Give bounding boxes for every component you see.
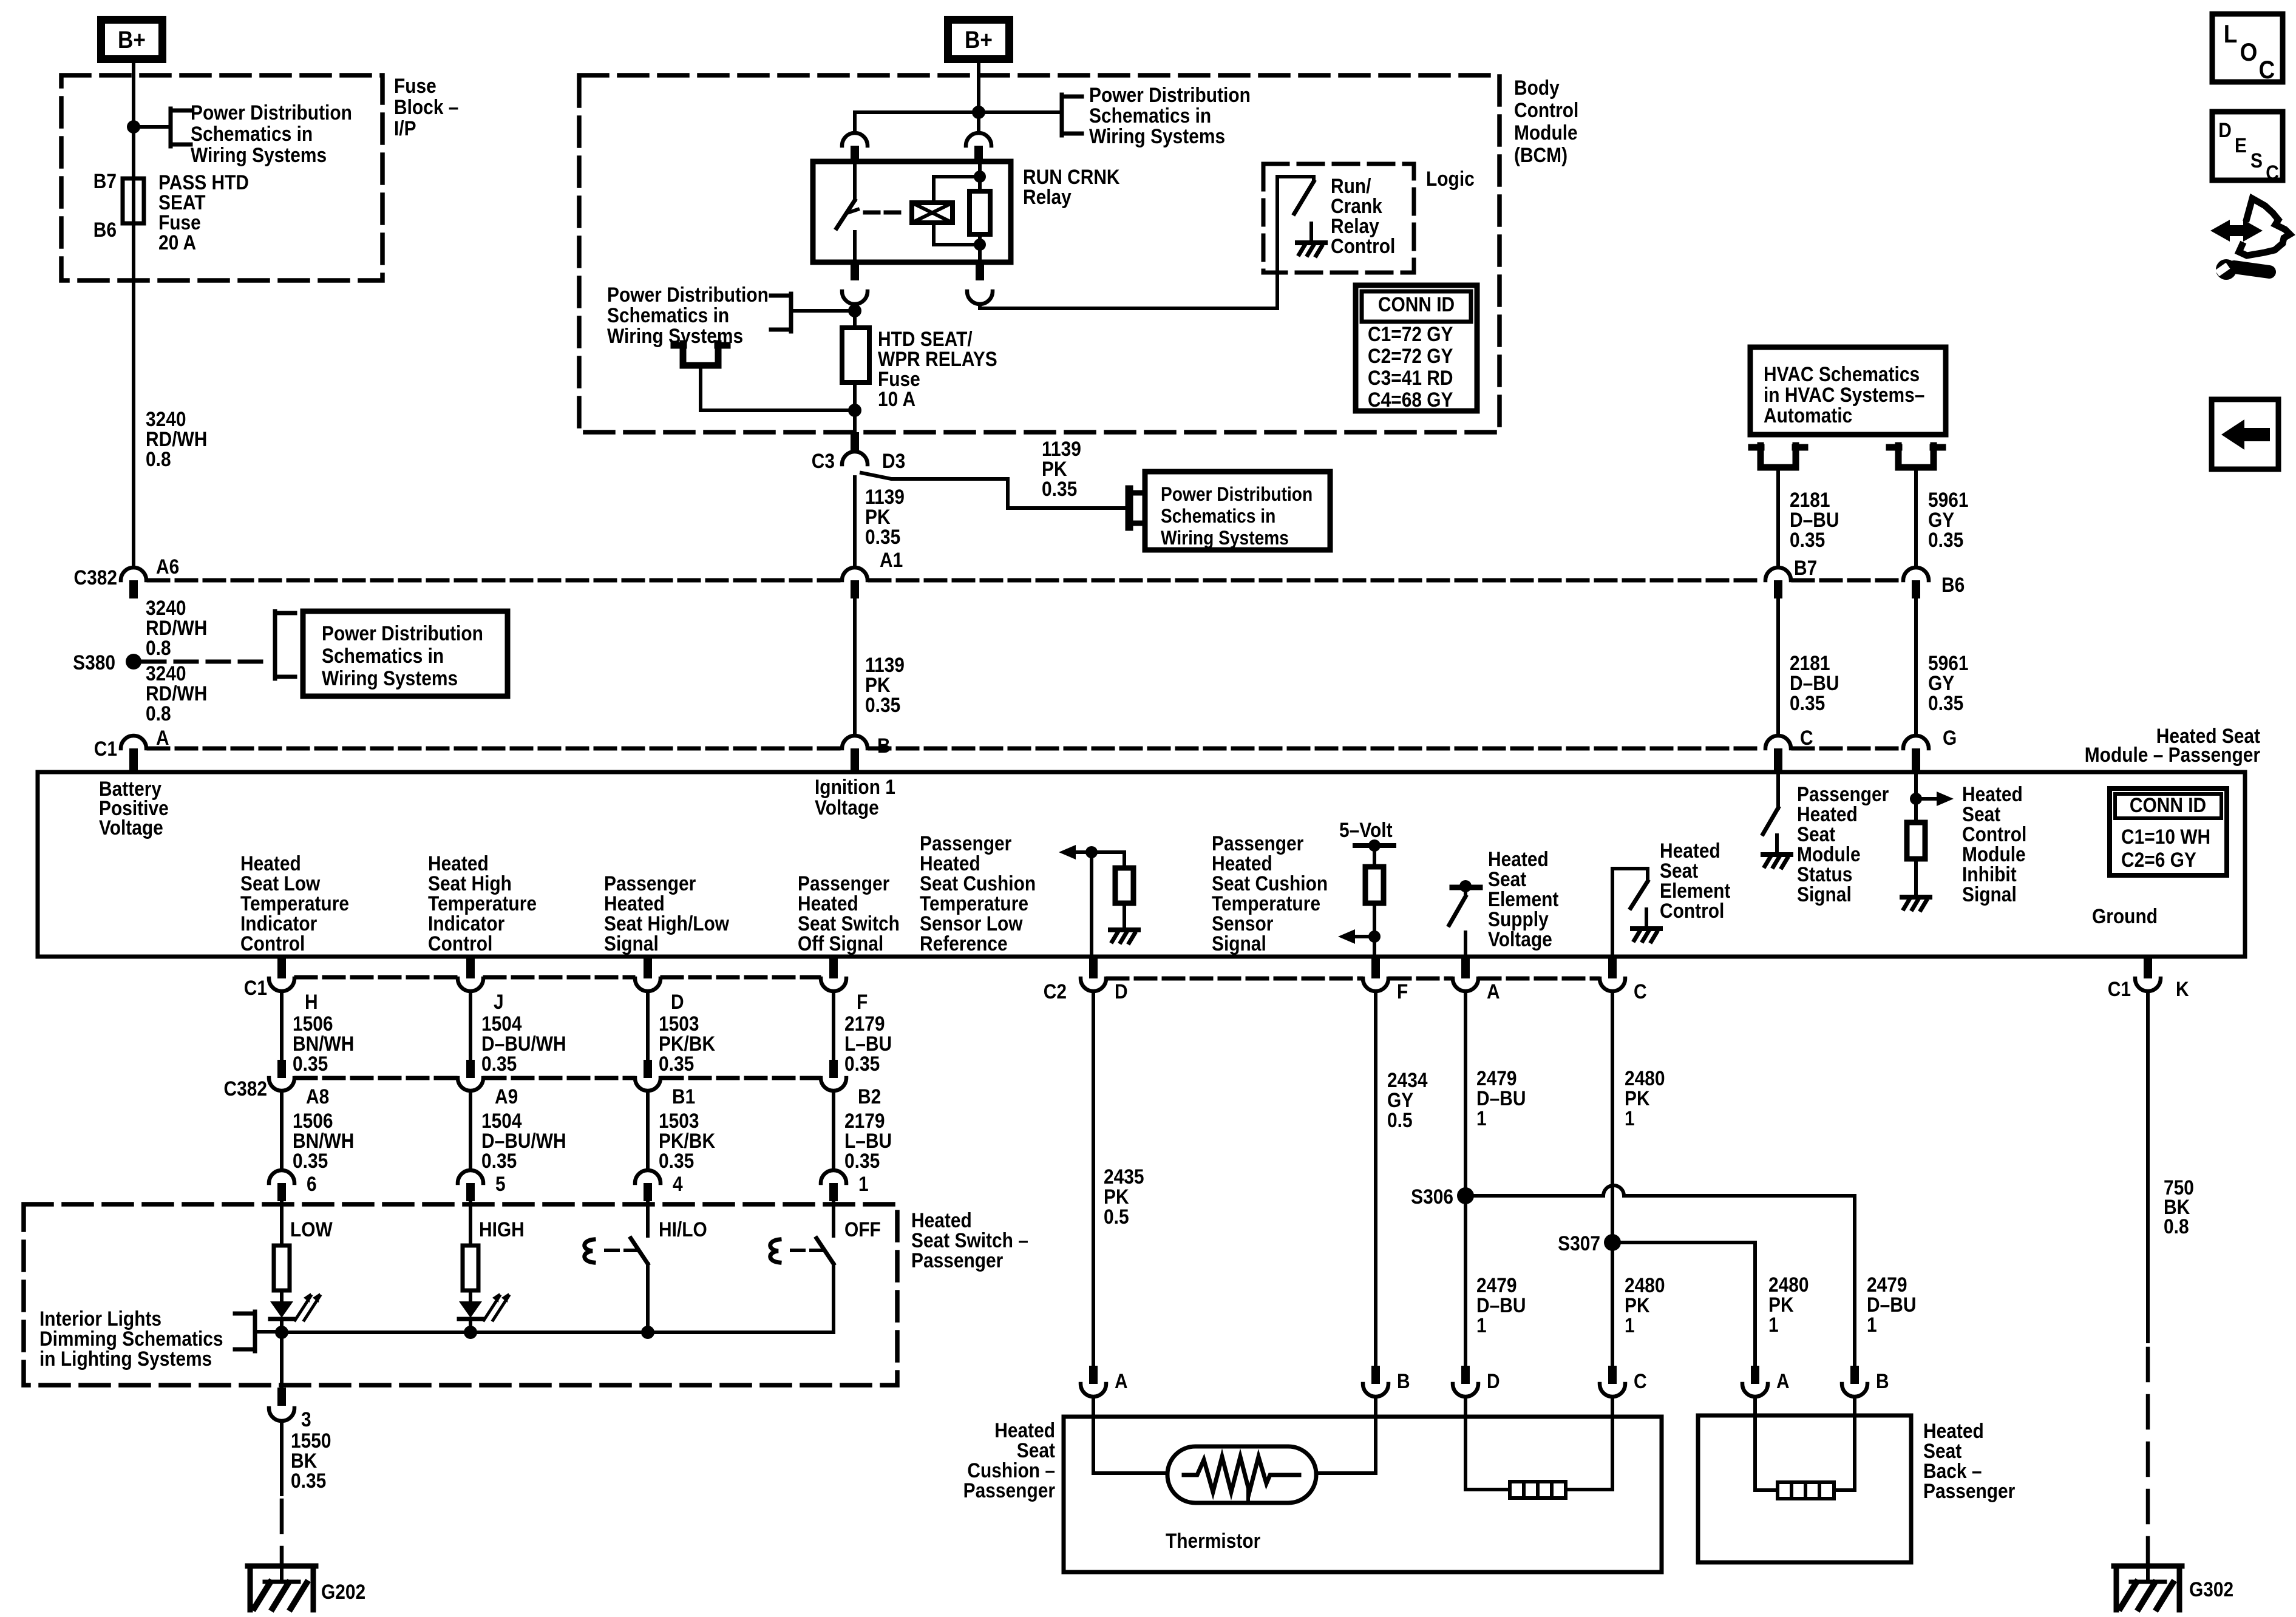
connector switch pin 3 [269,1388,294,1421]
label Heated Seat Switch - Passenger [911,1209,1028,1272]
module box Heated Seat Module - Passenger [38,772,2245,957]
label J [494,990,504,1013]
label B1 [672,1085,695,1108]
svg-text:C2=6 GY: C2=6 GY [2121,848,2196,871]
label pin 3 [301,1408,311,1431]
svg-text:Control: Control [1660,899,1724,922]
svg-text:I/P: I/P [394,117,416,140]
svg-text:1: 1 [1768,1313,1779,1336]
svg-text:A9: A9 [495,1085,518,1108]
wire label 2480 PK 1 (seat back A) [1768,1273,1809,1336]
svg-text:D: D [2218,118,2232,141]
svg-text:B6: B6 [93,218,117,241]
svg-text:Schematics in: Schematics in [1089,104,1211,127]
label A1 [880,548,903,571]
wire A8 down [280,1091,284,1170]
label LOW [290,1218,333,1241]
junction node coil top [974,171,986,183]
svg-text:Power Distribution: Power Distribution [1089,83,1251,106]
label pin 5 [495,1172,506,1195]
wire element to back B [1834,1397,1855,1490]
power symbol B+ (battery positive) middle [948,20,1010,59]
svg-text:0.35: 0.35 [865,525,900,548]
label Ignition 1 Voltage [815,775,895,819]
connector C2 pin A [1453,957,1478,991]
svg-text:1: 1 [1867,1313,1877,1336]
svg-text:0.35: 0.35 [1790,528,1825,551]
inline harness dashed line row 2 [149,747,1901,751]
svg-text:0.35: 0.35 [844,1149,880,1172]
label C [1800,726,1813,749]
icon box DESC [2212,112,2283,184]
connector switch pin [635,1170,661,1201]
connector B [842,736,868,772]
arrow sensor signal (left) [1338,929,1374,944]
wire label 2434 GY 0.5 [1387,1068,1428,1131]
svg-text:F: F [857,990,868,1013]
svg-text:Passenger: Passenger [1923,1479,2015,1502]
junction node HI/LO [641,1326,654,1339]
switch heated seat element control [1612,869,1648,957]
label pin 4 [673,1172,683,1195]
svg-text:C1: C1 [244,976,267,999]
relay resistor [970,191,990,234]
connector relay pin 5 (bottom right) [967,262,993,304]
continuation cup symbol (power distribution) [674,344,727,365]
table CONN ID (BCM) [1356,285,1477,411]
wire sensor low reference to pin D [1090,852,1093,957]
svg-text:B7: B7 [93,169,117,192]
fuse HTD SEAT/WPR RELAYS 10A [842,328,869,382]
wire relay left pin down [853,304,857,328]
label Fuse Block - I/P [394,74,458,140]
connector C2 pin C [1600,957,1625,991]
ground symbol run/crank driver [1297,223,1325,256]
svg-text:S307: S307 [1558,1232,1600,1255]
svg-text:C382: C382 [223,1077,267,1100]
wire label 1503 PK/BK 0.35 (upper) [659,1012,715,1075]
wire label 2435 PK 0.5 [1104,1165,1144,1228]
svg-text:C1=72 GY: C1=72 GY [1368,322,1453,345]
wire switch common bus [282,1331,834,1334]
label C1 (left) [94,737,117,760]
wire label 2480 PK 1 (upper) [1625,1066,1665,1130]
svg-text:C2: C2 [1044,980,1067,1003]
wire label 5961 GY 0.35 (above B6) [1928,488,1969,551]
svg-text:Ground: Ground [2092,904,2158,927]
svg-text:5: 5 [495,1172,506,1195]
ground symbol inhibit signal [1902,878,1930,910]
relay coil box [912,203,953,223]
svg-text:20 A: 20 A [158,231,196,254]
svg-text:HVAC Schematics: HVAC Schematics [1764,362,1920,385]
svg-text:E: E [2235,134,2247,157]
connector B7 [1765,568,1791,598]
connector seat harness pin B [1842,1366,1867,1397]
svg-text:B7: B7 [1794,556,1817,579]
connector relay pin 3 (bottom left) [842,262,868,304]
svg-text:0.8: 0.8 [146,702,171,725]
wire label 1550 BK 0.35 [291,1429,331,1492]
svg-text:B+: B+ [965,26,993,53]
component box Heated Seat Switch - Passenger (dashed) [24,1204,897,1385]
svg-text:C1=10 WH: C1=10 WH [2121,825,2210,848]
svg-text:Schematics in: Schematics in [1161,506,1275,527]
label D (C2) [1115,980,1128,1003]
svg-text:B: B [1876,1369,1889,1392]
svg-text:Control: Control [428,932,492,955]
wire branch 1139 PK to reference [861,473,1126,508]
svg-text:6: 6 [307,1172,317,1195]
label C (seat) [1634,1369,1647,1392]
wire cup to fuse node [701,365,855,410]
svg-text:10 A: 10 A [878,387,915,410]
wire B+ down to BCM [977,63,980,133]
svg-text:C3=41 RD: C3=41 RD [1368,366,1453,389]
wire label 1504 D-BU/WH 0.35 (upper) [481,1012,566,1075]
svg-text:H: H [305,990,318,1013]
logic box (dashed) [1263,164,1414,273]
svg-text:4: 4 [673,1172,683,1195]
label OFF [844,1218,881,1241]
svg-text:0.35: 0.35 [1790,691,1825,714]
svg-text:0.35: 0.35 [844,1052,880,1075]
indicator HIGH resistor [463,1201,478,1290]
svg-text:C: C [1634,1369,1647,1392]
junction node below fuse [848,404,861,417]
junction node sensor signal [1368,931,1381,943]
relay box RUN CRNK [813,161,1011,262]
wire label 3240 RD/WH 0.8 (below C382) [146,596,207,659]
label Power Distribution Schematics in Wiring Systems (fuse block) [191,101,352,166]
label Heated Seat Element Supply Voltage [1488,847,1559,951]
connector relay pin 2 (right) [966,133,991,163]
connector switch pin [269,1170,294,1201]
wire label 1503 PK/BK 0.35 (lower) [659,1109,715,1172]
label 1139 PK 0.35 (branch) [1042,437,1081,500]
bracket to Power Distribution reference (S380) [275,611,295,679]
svg-text:A: A [1776,1369,1790,1392]
svg-text:A1: A1 [880,548,903,571]
svg-text:0.8: 0.8 [2164,1215,2189,1238]
connector B6 [1903,568,1929,598]
connector G [1903,736,1929,772]
bracket to Power Distribution reference (BCM top) [979,95,1082,135]
power symbol B+ (battery positive) left [101,20,163,59]
svg-text:0.35: 0.35 [481,1052,517,1075]
label Run/ Crank Relay Control [1331,174,1395,257]
indicator HIGH lamp [459,1290,482,1332]
svg-text:D: D [1487,1369,1500,1392]
ground symbol module status [1763,835,1791,867]
svg-text:Control: Control [240,932,305,955]
wire label 2479 D-BU 1 (upper) [1476,1066,1526,1130]
wire B2 down [832,1091,835,1170]
splice S380 [126,654,141,670]
wire element to cushion C [1566,1397,1612,1490]
svg-text:Logic: Logic [1426,167,1475,190]
label F (C2) [1397,980,1408,1003]
label Power Distribution Schematics in Wiring Systems (BCM top) [1089,83,1251,147]
svg-text:1: 1 [858,1172,869,1195]
junction node above fuse [848,304,861,317]
junction node HIGH [464,1326,477,1339]
svg-text:B1: B1 [672,1085,695,1108]
label Passenger Heated Seat High/Low Signal [604,872,729,955]
label G302 [2189,1578,2233,1601]
wire label 2179 L-BU 0.35 (lower) [844,1109,892,1172]
svg-text:1: 1 [1476,1314,1487,1337]
wire S307 to seat back A [1612,1242,1755,1366]
icon mechanic hint [2210,198,2290,280]
svg-text:A: A [156,726,169,749]
svg-text:0.35: 0.35 [1928,528,1963,551]
svg-text:0.5: 0.5 [1387,1108,1413,1131]
wire label 2179 L-BU 0.35 (upper) [844,1012,892,1075]
wire J to C382-A9 [469,991,472,1060]
svg-text:D3: D3 [882,449,905,472]
label B (seat) [1876,1369,1889,1392]
inhibit signal driver (arrow, resistor, ground) [1907,772,1954,878]
splice S307 [1604,1234,1621,1251]
connector C1 pin F (module bottom) [821,957,846,991]
label C1 (bottom) [244,976,267,999]
svg-text:Control: Control [1331,234,1395,257]
label Heated Seat Cushion - Passenger [963,1419,1056,1502]
connector C382 pin A9 [458,1060,483,1091]
wire HVAC right to B6 [1914,467,1918,568]
relay coil top wire [934,177,980,203]
label 5-Volt [1339,818,1393,841]
label A6 [156,555,179,578]
label Passenger Heated Seat Cushion Temperature Sensor Low Reference [920,832,1036,955]
svg-text:1: 1 [1625,1314,1635,1337]
svg-text:Schematics in: Schematics in [191,122,313,145]
svg-text:C: C [2266,161,2279,184]
wire cushion D to element [1466,1397,1510,1490]
reference box Power Distribution Schematics in Wiring Systems (S380) [303,611,508,696]
svg-text:Power Distribution: Power Distribution [191,101,352,124]
inline harness dashed line row 1 [149,578,1901,583]
svg-text:Module – Passenger: Module – Passenger [2085,743,2260,766]
svg-text:0.35: 0.35 [1042,477,1077,500]
wire label 2181 D-BU 0.35 (above C) [1790,651,1839,714]
svg-text:C3: C3 [812,449,835,472]
svg-text:OFF: OFF [844,1218,881,1241]
connector C382 pin B2 [821,1060,846,1091]
component box Body Control Module BCM (dashed) [579,75,1500,432]
wire K to G302 (partly hidden) [2146,991,2150,1564]
wire label 2479 D-BU 1 (seat back B) [1867,1273,1916,1336]
dimming arrows LOW [295,1293,320,1320]
junction node at BCM feed [972,106,985,119]
svg-text:3: 3 [301,1408,311,1431]
label RUN CRNK Relay [1023,165,1120,208]
connector seat harness pin D [1453,1366,1478,1397]
label C2 [1044,980,1067,1003]
svg-text:0.8: 0.8 [146,636,171,659]
svg-text:C1: C1 [2108,977,2131,1000]
svg-text:Signal: Signal [604,932,659,955]
svg-text:0.35: 0.35 [1928,691,1963,714]
svg-text:Signal: Signal [1797,883,1852,906]
svg-text:Ignition 1: Ignition 1 [815,775,895,798]
ground G202 [248,1566,316,1610]
svg-text:B2: B2 [858,1085,881,1108]
svg-text:Power Distribution: Power Distribution [607,283,769,306]
label 1139 PK 0.35 (above A1) [865,485,905,548]
svg-text:HIGH: HIGH [479,1218,525,1241]
label HI/LO [659,1218,707,1241]
connector A1 [842,568,868,598]
svg-text:CONN ID: CONN ID [2130,793,2206,816]
svg-text:Automatic: Automatic [1764,404,1852,427]
label A (C2) [1487,980,1500,1003]
svg-text:Wiring Systems: Wiring Systems [191,143,327,166]
label B6 [1941,573,1965,596]
icon box back-arrow [2212,399,2278,469]
svg-text:C382: C382 [73,566,117,589]
svg-text:S380: S380 [73,651,115,674]
svg-text:in Lighting Systems: in Lighting Systems [39,1347,212,1370]
label S380 [73,651,115,674]
wire B7 to C [1776,600,1780,736]
wire D to C382-B1 [646,991,650,1060]
wire A1 to B [853,600,857,736]
wire B+ to C382 [132,63,135,568]
label PASS HTD SEAT Fuse 20 A [158,171,249,254]
wire back A to element [1755,1397,1778,1490]
switch OFF [770,1201,834,1332]
label HIGH [479,1218,525,1241]
junction node coil bottom [974,239,986,251]
svg-text:B: B [877,734,891,757]
inline dashed line C2 row [1108,977,1598,981]
svg-text:Wiring Systems: Wiring Systems [1161,527,1289,549]
svg-text:J: J [494,990,504,1013]
label Heated Seat Element Control [1660,839,1731,922]
svg-text:Wiring Systems: Wiring Systems [1089,124,1225,147]
svg-text:0.35: 0.35 [659,1149,694,1172]
label B [877,734,891,757]
label Passenger Heated Seat Cushion Temperature Sensor Signal [1212,832,1328,955]
component box Heated Seat Back - Passenger [1698,1415,1911,1562]
reference box HVAC Schematics in HVAC Systems-Automatic [1750,347,1946,435]
label Passenger Heated Seat Module Status Signal [1797,782,1889,906]
connector C382 pin A6 [121,568,146,598]
svg-text:Power Distribution: Power Distribution [322,622,483,645]
icon box LOC [2212,14,2283,84]
fuse PASS HTD SEAT 20A [123,178,144,223]
label Heated Seat High Temperature Indicator Control [428,852,537,955]
wire to relay left pin [855,112,979,133]
label HTD SEAT/ WPR RELAYS Fuse 10 A [878,327,997,410]
label C382 (bottom) [223,1077,267,1100]
label A [156,726,169,749]
svg-text:D: D [671,990,684,1013]
label Heated Seat Low Temperature Indicator Control [240,852,349,955]
svg-text:Signal: Signal [1962,883,2017,906]
wire HVAC left to B7 [1776,467,1780,568]
junction node LOW [275,1326,288,1339]
wire label 2479 D-BU 1 (lower) [1476,1273,1526,1337]
wire F to C382-B2 [832,991,835,1060]
label A (seat) [1776,1369,1790,1392]
connector C1 pin K (ground) [2135,957,2161,991]
svg-text:A: A [1115,1369,1128,1392]
wire label 1506 BN/WH 0.35 (upper) [293,1012,354,1075]
svg-text:0.35: 0.35 [481,1149,517,1172]
5-volt supply rail and resistor [1355,839,1394,957]
label Logic [1426,167,1475,190]
wire fuse to C3 [853,382,857,432]
connector seat harness pin B [1363,1366,1388,1397]
connector C382 pin B1 [635,1060,661,1091]
wire B6 to G [1914,600,1918,736]
sensor low reference driver (arrow, resistor, ground) [1059,845,1133,926]
label pin 6 [307,1172,317,1195]
svg-text:B: B [1397,1369,1410,1392]
svg-text:0.8: 0.8 [146,447,171,470]
label D (seat) [1487,1369,1500,1392]
label Interior Lights Dimming Schematics in Lighting Systems [39,1307,223,1370]
connector C1 pin D (module bottom) [635,957,661,991]
svg-text:Schematics in: Schematics in [607,303,729,327]
relay switch contact [837,161,858,262]
label Heated Seat Module - Passenger [2085,724,2261,766]
svg-text:B6: B6 [1941,573,1965,596]
wire label 1506 BN/WH 0.35 (lower) [293,1109,354,1172]
svg-text:Body: Body [1514,76,1560,99]
bracket from Interior Lights Dimming reference [235,1312,282,1351]
wire A9 down [469,1091,472,1170]
label Heated Seat Back - Passenger [1923,1419,2015,1502]
table CONN ID (module) [2110,788,2227,875]
svg-text:0.35: 0.35 [293,1052,328,1075]
svg-text:(BCM): (BCM) [1514,143,1567,166]
component box Fuse Block - I/P (dashed) [61,75,382,280]
label D3 [882,449,905,472]
label C (C2) [1634,980,1647,1003]
inline dashed line C1 row [296,975,819,980]
connector C3 pin D3 [842,432,868,464]
svg-text:Wiring Systems: Wiring Systems [322,666,458,690]
label F [857,990,868,1013]
wire D col down [1092,991,1095,1366]
svg-text:0.35: 0.35 [293,1149,328,1172]
svg-text:Signal: Signal [1212,932,1266,955]
label B2 [858,1085,881,1108]
wire label 750 BK 0.8 [2164,1176,2194,1238]
svg-text:K: K [2176,977,2189,1000]
connector switch pin [821,1170,846,1201]
wire C3 to A1 [853,477,857,568]
svg-text:B+: B+ [118,26,146,53]
label C382 [73,566,117,589]
connector C [1765,736,1791,772]
svg-text:S306: S306 [1411,1185,1453,1208]
label Thermistor [1166,1529,1260,1552]
label D [671,990,684,1013]
svg-text:Off Signal: Off Signal [798,932,883,955]
label C3 [812,449,835,472]
ground G302 [2114,1566,2182,1610]
svg-text:Passenger: Passenger [911,1249,1003,1272]
label Passenger Heated Seat Switch Off Signal [798,872,900,955]
wire label 3240 RD/WH 0.8 (above C1) [146,662,207,725]
ground symbol sensor low reference [1110,910,1138,943]
svg-text:A6: A6 [156,555,179,578]
